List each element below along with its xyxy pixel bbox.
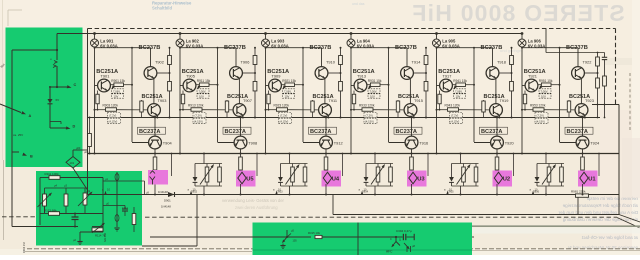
connector diamond highlight [493,171,513,187]
svg-text:T915: T915 [414,98,423,103]
wire T914 to divider [413,72,426,74]
svg-text:C394 0,47µ: C394 0,47µ [396,229,412,233]
svg-text:C: C [74,83,77,87]
svg-text:BC237A: BC237A [567,129,588,135]
capacitor C111 [74,214,76,218]
svg-text:101: 101 [70,161,75,165]
svg-text:T918: T918 [497,60,506,65]
mid resistor R117 [64,194,68,206]
svg-text:Schaltbild: Schaltbild [152,6,172,11]
wire right of AFC strip [472,236,474,238]
resistor R944 vertical [483,100,485,105]
svg-text:A: A [29,114,32,118]
svg-text:BC237A: BC237A [310,129,331,135]
svg-text:D903: D903 [277,191,284,194]
zener diode 6V [48,99,53,103]
svg-text:BC237A: BC237A [225,129,246,135]
T923 emitter to rail [584,116,586,118]
voltage note boxes [368,85,371,89]
trim pot R114 [92,226,103,228]
transistor T920 BC237A [480,127,508,134]
transistor T912 BC237A [309,127,337,134]
bottom exit lines right [619,215,640,223]
stub wire below rail [256,154,258,177]
resistor R954 vertical [568,100,570,105]
bottom frame grey line [25,251,252,253]
resistor R952 [603,76,607,86]
svg-text:1N4148: 1N4148 [161,205,171,209]
stage 4 : lamp La 904 [350,34,352,40]
svg-text:10V: 10V [541,95,546,99]
connector diamond highlight [148,170,168,185]
svg-text:Q: Q [399,239,401,242]
right column resistor pair [340,48,342,56]
wire lamp to T918 [436,47,438,154]
svg-text:(4,15V): (4,15V) [109,120,118,124]
grey rule right of strip [472,225,640,227]
dashed top border [88,28,616,30]
svg-text:U2: U2 [503,176,510,182]
svg-text:R315 10k: R315 10k [308,231,321,235]
svg-text:105: 105 [293,240,298,243]
stage 6 : lamp La 906 [521,34,523,40]
voltage note boxes lower [108,113,121,118]
ground in bias box [79,238,81,241]
voltage note boxes [112,85,115,89]
trimmer network 1 (R905/R906) [195,163,222,165]
emitter rail y117 [88,117,601,119]
svg-text:sie nun folge der deseren dist: sie nun folge der deseren distributing [562,217,638,222]
svg-text:µ03: µ03 [76,146,81,150]
lamp supply rail [88,33,523,35]
stage 1 : lamp La 901 [94,34,96,40]
svg-text:alt noch folge der Reparatursa: alt noch folge der Reparatursanzeige [562,203,638,208]
svg-text:T909: T909 [272,73,281,78]
svg-text:T905: T905 [186,73,195,78]
trimmer network 5 (R945/R946) [537,163,564,165]
svg-text:ca. 25V: ca. 25V [13,133,23,137]
stage left rail junction [437,85,440,87]
node base bus [559,48,561,142]
emitter resistor column [439,91,441,110]
wire T902 to divider [157,72,170,74]
emitter resistor column [182,91,184,110]
transistor T908 BC237A [223,127,251,134]
green highlight region left (power section) [6,28,83,168]
voltage note boxes lower [364,113,377,118]
trim pot R112 [43,194,47,206]
dashed artifact right [629,73,631,131]
resistor R905 on left frame [89,118,91,134]
connector diamond highlight [407,171,427,187]
resistor R914 vertical [226,100,228,105]
svg-text:(4,15V): (4,15V) [365,120,374,124]
page fold line [3,160,5,240]
right column of bias box [102,178,104,233]
tick labels on bottom rail [190,192,192,195]
svg-text:R933 120k: R933 120k [359,104,375,108]
svg-text:U4: U4 [332,176,340,182]
resistor R936 560 vertical [411,154,413,158]
stub wire below rail [171,154,173,177]
svg-text:D901: D901 [164,199,171,203]
tick labels on bottom rail [447,192,449,195]
svg-text:10V: 10V [285,95,290,99]
wire diamond down to bias box [73,168,88,190]
wire T910 to divider [328,72,341,74]
transistor stub in strip [286,230,288,237]
wire lamp to T906 [179,47,181,154]
svg-text:(7,2V): (7,2V) [109,114,116,118]
transistor T904 BC237A [138,127,166,134]
svg-text:D904: D904 [362,191,369,194]
T903 emitter to rail [156,116,158,118]
svg-text:R981 220k: R981 220k [571,190,586,194]
dashed right border upper [615,29,617,105]
svg-text:7,06V: 7,06V [113,90,120,94]
stage left rail junction [522,85,525,87]
wire lamp to T914 [350,47,352,154]
emitter resistor column [524,91,526,110]
capacitor C901 47n [604,53,606,58]
svg-text:R114 7k: R114 7k [95,234,106,238]
svg-text:(4,15V): (4,15V) [194,120,203,124]
svg-text:T913: T913 [357,73,366,78]
resistor R906 560 vertical [154,154,156,158]
capacitor C112 [124,206,126,210]
green highlight region bottom-middle (AFC strip) [253,223,473,256]
svg-text:7,06V: 7,06V [284,90,291,94]
right column resistor pair [254,48,256,56]
svg-text:BC237A: BC237A [481,129,502,135]
svg-text:(4,15V): (4,15V) [536,120,545,124]
strip vertical wire [357,223,359,256]
svg-text:T912: T912 [334,141,343,146]
wire lamp to T922 [521,47,523,154]
svg-text:D902: D902 [191,191,198,194]
resistor R924 vertical [312,100,314,105]
T911 emitter to rail [327,116,329,118]
svg-text:10V: 10V [114,95,119,99]
main rail y153.5 [88,153,620,155]
dashed bottom border [2,216,36,218]
connector plug [54,61,57,64]
right column resistor pair [169,48,171,56]
resistor R116 right of box [132,214,136,225]
resistor R956 560 vertical [582,154,584,158]
svg-text:T907: T907 [243,98,252,103]
faint rule inside strip [253,249,473,251]
svg-text:C: C [390,238,392,241]
node base bus [131,48,133,142]
lower bus y214.5 [333,214,619,216]
svg-text:T917: T917 [443,73,452,78]
T914 emitter to T915 collector [409,79,411,104]
AFC wire through strip [150,236,311,238]
T907 emitter to rail [242,116,244,118]
stage 5 : lamp La 905 [436,34,438,40]
wire and arrow D [50,127,66,129]
svg-text:µ03: µ03 [84,150,89,154]
drop wires to lower bus [332,195,334,215]
svg-text:BC237A: BC237A [396,129,417,135]
svg-text:R923 120k: R923 120k [274,104,290,108]
svg-text:verwendung Leis- Geräts von de: verwendung Leis- Geräts von der [222,198,285,203]
stub wire below rail [598,154,600,177]
svg-text:T922: T922 [583,60,592,65]
node base bus [473,48,475,142]
svg-text:T914: T914 [412,60,422,65]
svg-text:(7,2V): (7,2V) [195,114,202,118]
voltage note boxes lower [535,113,548,118]
resistor R904 vertical [141,100,143,105]
svg-text:(4,15V): (4,15V) [451,120,460,124]
svg-text:AFC: AFC [386,250,393,254]
right border lower [618,105,620,215]
resistor R934 vertical [397,100,399,105]
svg-text:R904 1M: R904 1M [22,242,26,253]
svg-text:T903: T903 [158,98,167,103]
svg-text:(7,2V): (7,2V) [451,114,458,118]
trimmer network 4 (R935/R936) [452,163,479,165]
svg-text:7,06V: 7,06V [199,90,206,94]
arrow B [12,151,19,153]
resistor R916 560 vertical [240,154,242,158]
wire diamond to frame [72,150,74,157]
wire lamp to T902 [94,47,96,154]
voltage note boxes lower [279,113,292,118]
voltage note boxes [454,85,457,89]
svg-text:10V: 10V [199,95,204,99]
wires exiting bias box right [103,180,145,182]
wire B down to bias box [11,152,13,227]
trimmer network 3 (R925/R926) [366,163,393,165]
emitter resistor column [97,91,99,110]
svg-text:(7,2V): (7,2V) [366,114,373,118]
voltage note boxes [283,85,286,89]
svg-text:T924: T924 [590,141,600,146]
T919 emitter to rail [498,116,500,118]
dashed page bottom rule [27,248,640,250]
resistor R946 560 vertical [496,154,498,158]
svg-text:T904: T904 [163,141,173,146]
wire down with zener [56,66,58,87]
transistor T924 BC237A [565,127,593,134]
ghost paragraph bottom right [586,196,638,201]
node base bus [302,48,304,142]
T915 emitter to rail [413,116,415,118]
frame box right of bias [196,195,198,247]
T918 emitter to T919 collector [495,79,497,104]
ghost mirrored headline STEREO 8000 HiFi [411,0,625,26]
wire T906 to divider [242,72,255,74]
svg-text:BC237B: BC237B [224,45,246,51]
transistor T916 BC237A [394,127,422,134]
stage left rail junction [180,85,183,87]
right column resistor pair [511,48,513,56]
trim pot R115 [83,193,87,205]
svg-text:U1: U1 [588,176,596,182]
wire and arrow C [50,86,67,88]
voltage note boxes lower [193,113,206,118]
stub wire below rail [427,154,429,177]
connector diamond highlight [578,171,598,187]
T922 emitter to T923 collector [580,79,582,104]
left frame vertical [87,29,89,195]
stage left rail junction [95,85,98,87]
resistor R926 560 vertical [325,154,327,158]
connector diamond highlight [236,171,256,187]
bias box left rail [39,178,41,226]
tick labels on bottom rail [361,192,363,195]
stage 2 : lamp La 902 [179,34,181,40]
svg-text:1N4148: 1N4148 [158,190,168,194]
svg-text:7,06V: 7,06V [370,90,377,94]
svg-text:T908: T908 [248,141,257,146]
stage 3 : lamp La 903 [265,34,267,40]
stage6 column resistor [545,29,547,53]
tick labels on bottom rail [276,192,278,195]
svg-text:R111 100k: R111 100k [45,172,60,176]
svg-text:T906: T906 [241,60,250,65]
branch to D upper [50,121,61,123]
wire lamp to T910 [265,47,267,154]
ghost marks mid right [604,58,632,65]
right corner rail [592,104,619,106]
svg-text:D905: D905 [448,191,455,194]
right column resistor pair [425,48,427,56]
svg-text:BC237B: BC237B [481,45,503,51]
svg-text:BC237B: BC237B [310,45,332,51]
node base bus [388,48,390,142]
svg-text:7,06V: 7,06V [541,90,548,94]
svg-text:BC237A: BC237A [139,129,160,135]
wire T918 to divider [499,72,512,74]
stub wire below rail [342,154,344,177]
svg-text:R913 120k: R913 120k [188,104,204,108]
voltage note boxes [197,85,200,89]
connector diamond highlight [322,171,342,187]
svg-text:(7,2V): (7,2V) [537,114,544,118]
svg-text:BC237B: BC237B [395,45,417,51]
svg-text:und das: und das [352,2,365,6]
wire T922 to divider [584,72,597,74]
T902 emitter to T903 collector [153,79,155,104]
svg-text:7,06V: 7,06V [455,90,462,94]
AFC transistor [395,237,397,242]
svg-text:T902: T902 [155,60,164,65]
svg-text:T910: T910 [326,60,336,65]
svg-text:T919: T919 [500,98,509,103]
node base bus [217,48,219,142]
svg-text:BC237B: BC237B [566,45,588,51]
T906 emitter to T907 collector [238,79,240,104]
svg-text:STEREO 8000 HiF: STEREO 8000 HiF [411,0,625,26]
svg-text:R953 120k: R953 120k [530,104,546,108]
svg-text:D906: D906 [533,191,540,194]
svg-text:T921: T921 [528,73,537,78]
trimmer network 2 (R915/R916) [281,163,308,165]
svg-text:T916: T916 [419,141,428,146]
arrow A [0,104,21,113]
faint corner mark [7,10,9,26]
svg-text:T920: T920 [505,141,515,146]
svg-text:T911: T911 [329,98,338,103]
svg-text:at and folge der ver-Oh-fact: at and folge der ver-Oh-fact [581,235,638,240]
voltage note boxes lower [450,113,463,118]
svg-text:10V: 10V [456,95,461,99]
svg-text:U5: U5 [246,176,254,182]
T910 emitter to T911 collector [324,79,326,104]
svg-text:T901: T901 [101,73,110,78]
diamond connector 101 [66,157,80,169]
svg-text:10V: 10V [370,95,375,99]
bottom rail y194.5 [88,194,620,196]
svg-text:D: D [73,125,76,129]
svg-text:U3: U3 [417,176,425,182]
wire from supply rail into green [57,33,87,35]
green highlight region bottom-left (bias network box) [36,171,142,246]
stage left rail junction [351,85,354,87]
svg-text:6V: 6V [56,98,60,102]
tick labels on bottom rail [105,192,107,195]
connector column x117 [116,172,118,225]
svg-text:(4,15V): (4,15V) [280,120,289,124]
stub wire below rail [513,154,515,177]
svg-text:B: B [30,155,33,159]
svg-text:R943 120k: R943 120k [445,104,461,108]
svg-text:R903 120k: R903 120k [103,104,119,108]
stage left rail junction [266,85,269,87]
svg-text:T923: T923 [585,98,594,103]
emitter resistor column [268,91,270,110]
svg-text:BC237B: BC237B [139,45,161,51]
emitter resistor column [353,91,355,110]
svg-text:zwei deren Ausführung: zwei deren Ausführung [235,205,278,210]
voltage note boxes [539,85,542,89]
svg-text:(7,2V): (7,2V) [280,114,287,118]
tick labels on bottom rail [532,192,534,195]
